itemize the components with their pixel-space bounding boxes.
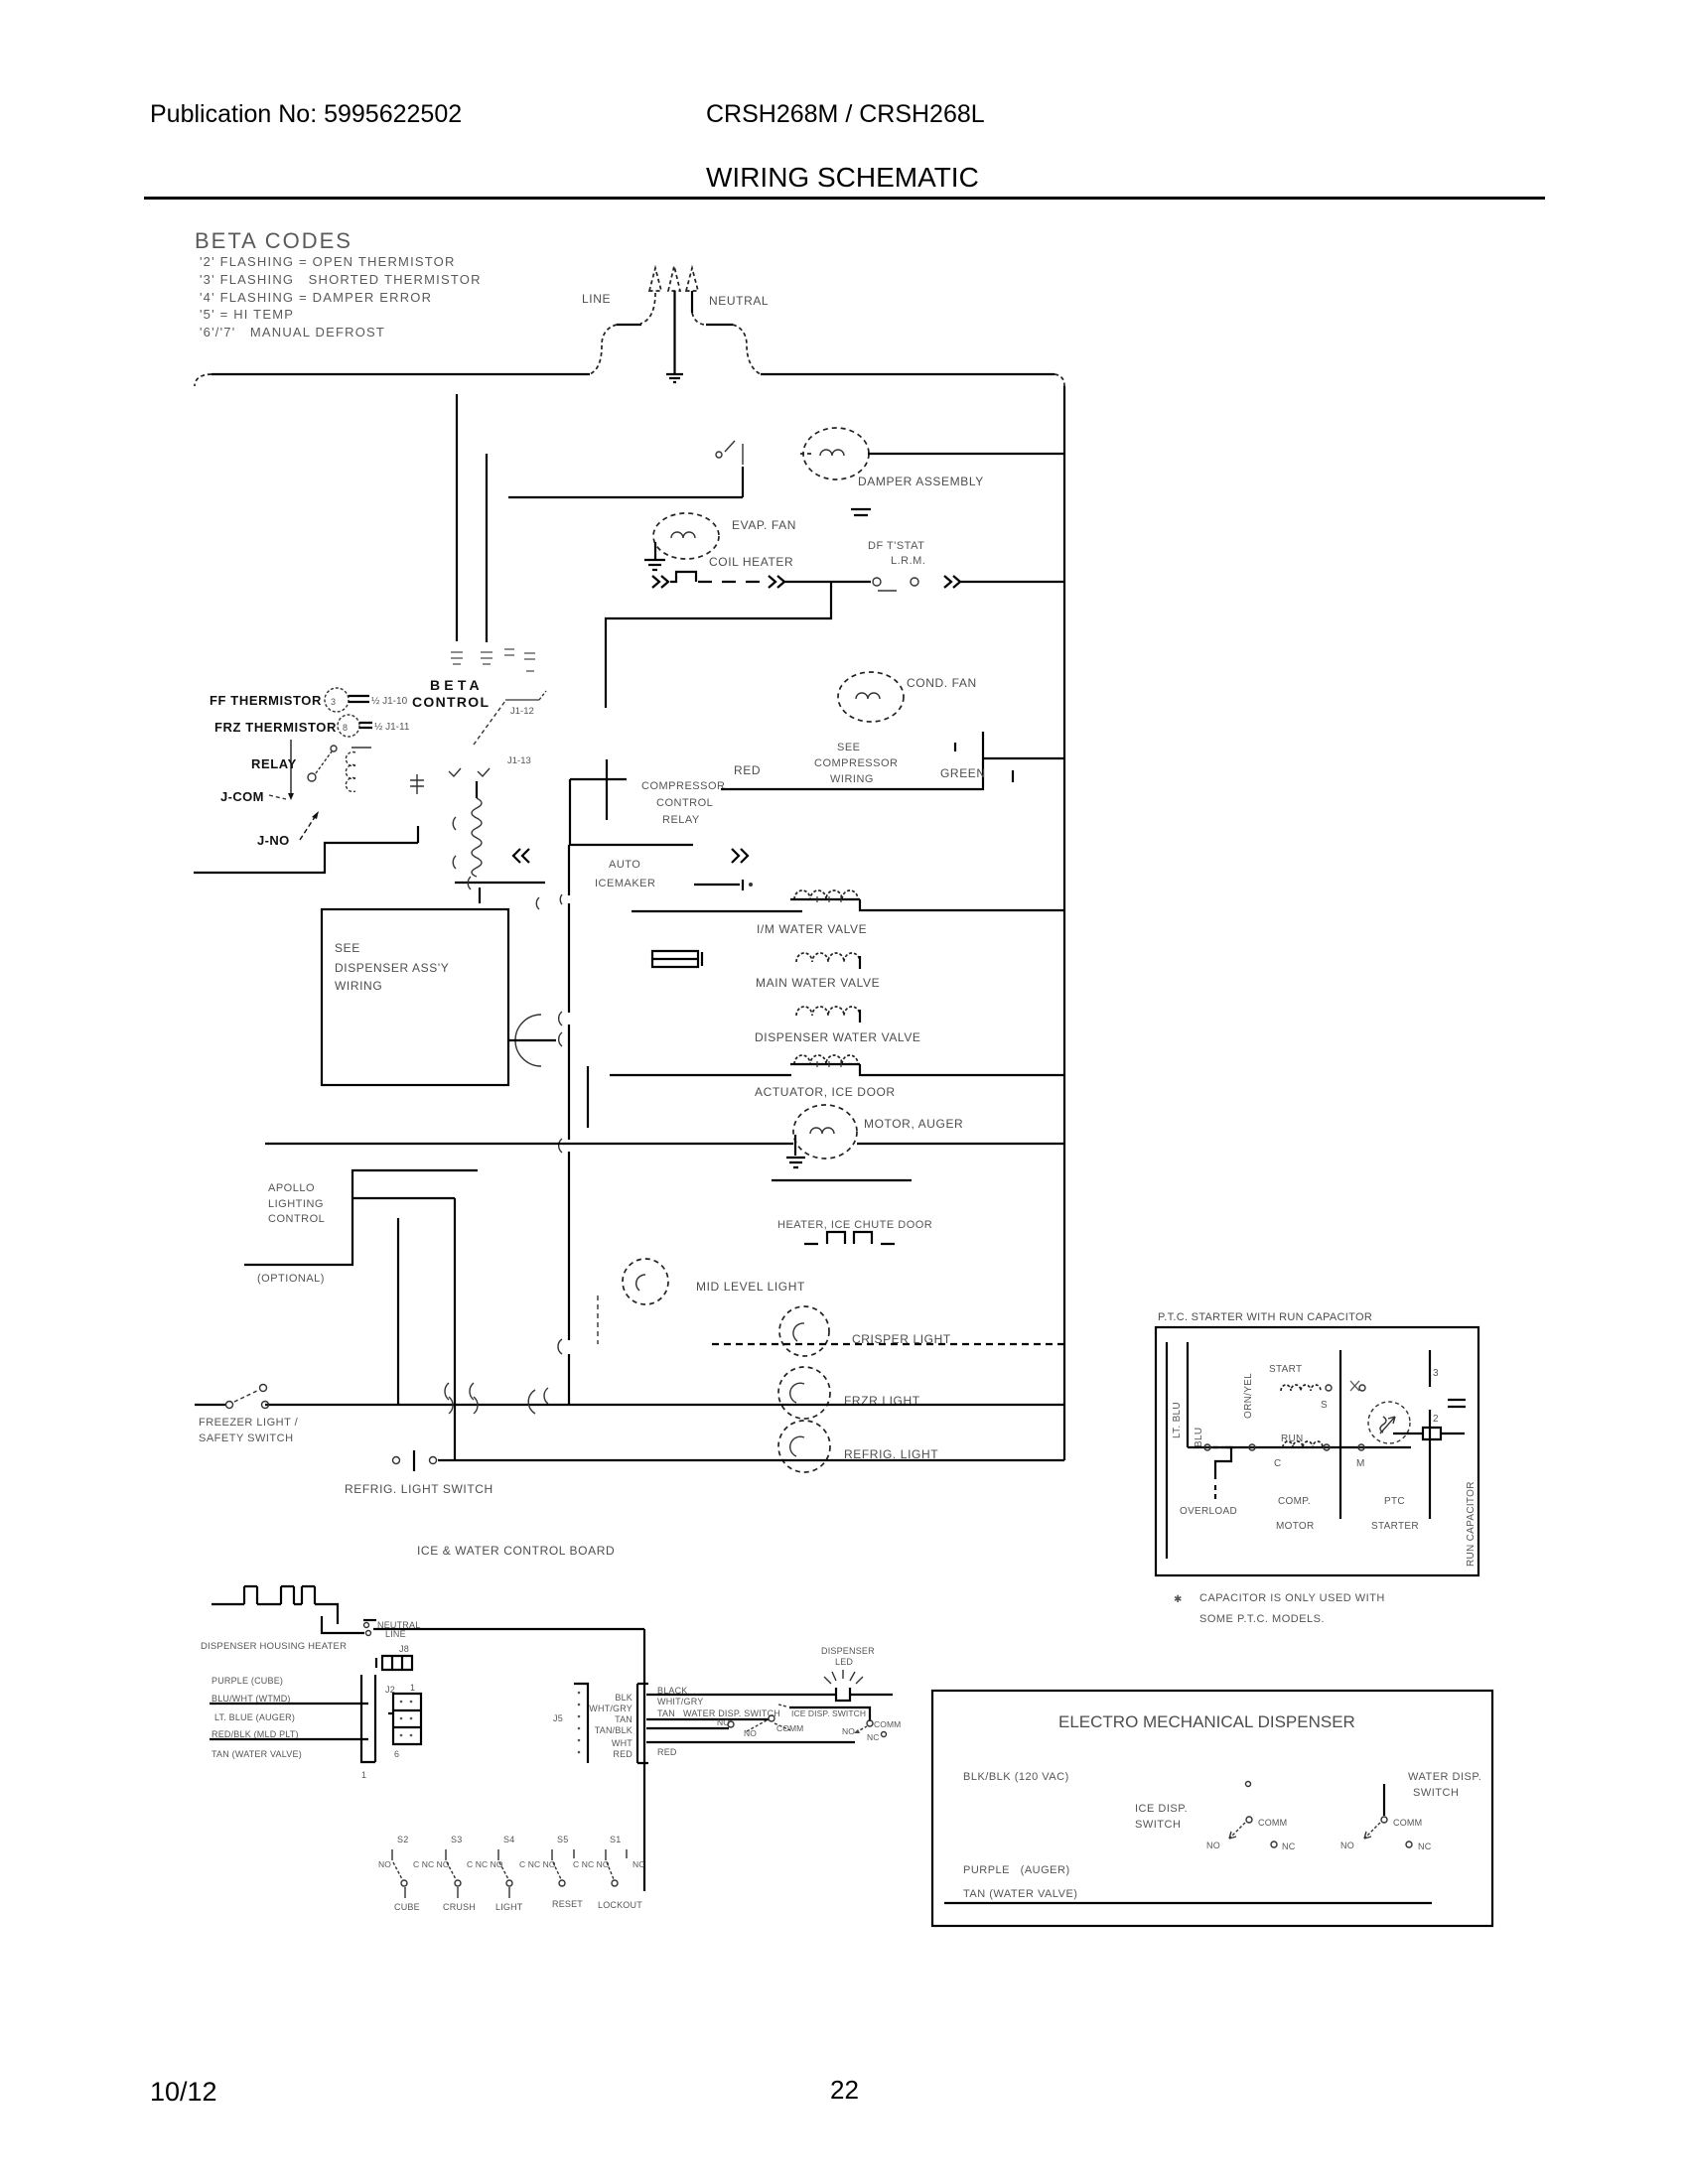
svg-text:NC: NC bbox=[1418, 1842, 1432, 1851]
selector switch S5 bbox=[519, 1835, 574, 1886]
auger wire right bbox=[857, 1143, 1064, 1145]
svg-text:'6'/'7' MANUAL DEFROST: '6'/'7' MANUAL DEFROST bbox=[200, 325, 385, 340]
svg-text:C NC NO: C NC NO bbox=[573, 1859, 610, 1869]
svg-text:J8: J8 bbox=[399, 1644, 409, 1654]
svg-text:RESET: RESET bbox=[552, 1899, 583, 1909]
svg-text:LINE: LINE bbox=[582, 292, 611, 306]
dispenser led bbox=[836, 1688, 850, 1701]
freezer light bbox=[778, 1367, 830, 1419]
step stub vertical bbox=[417, 826, 419, 843]
defrost heater jog bbox=[670, 572, 696, 582]
comb elbow to neutral bbox=[321, 1604, 364, 1633]
ptc circle bbox=[1368, 1402, 1410, 1443]
callout dashed diagonal bbox=[474, 701, 505, 745]
svg-text:DISPENSER: DISPENSER bbox=[821, 1646, 875, 1656]
tan switch terminal bbox=[769, 1715, 774, 1721]
selector switch S2 bbox=[378, 1835, 408, 1898]
run winding coil bbox=[1283, 1441, 1323, 1447]
cond fan curls bbox=[856, 693, 880, 699]
board right edge bbox=[643, 1629, 645, 1891]
svg-text:WATER DISP.: WATER DISP. bbox=[1408, 1771, 1481, 1783]
crisper light bbox=[779, 1306, 829, 1356]
electro mechanical dispenser box bbox=[932, 1691, 1492, 1926]
selector switch S4 bbox=[467, 1835, 514, 1898]
ptc right vertical bbox=[1429, 1350, 1431, 1519]
icemaker thermostat bbox=[652, 951, 702, 967]
IM water valve wire right bbox=[860, 899, 1064, 910]
svg-text:ORN/YEL: ORN/YEL bbox=[1243, 1373, 1254, 1419]
ground lead from middle prong bbox=[673, 291, 675, 373]
ptc mid vertical bbox=[1339, 1350, 1341, 1519]
power plug prong left bbox=[649, 268, 661, 291]
svg-text:TAN: TAN bbox=[615, 1714, 633, 1724]
emd switch1 pivot bbox=[1246, 1782, 1251, 1787]
svg-text:STARTER: STARTER bbox=[1371, 1521, 1419, 1532]
svg-text:COIL HEATER: COIL HEATER bbox=[709, 555, 793, 569]
svg-text:ICE DISP. SWITCH: ICE DISP. SWITCH bbox=[791, 1708, 866, 1718]
svg-text:ACTUATOR, ICE DOOR: ACTUATOR, ICE DOOR bbox=[755, 1085, 896, 1099]
svg-text:S: S bbox=[1321, 1400, 1328, 1411]
power plug prong middle bbox=[668, 266, 680, 291]
svg-text:J1-13: J1-13 bbox=[507, 755, 531, 766]
auger motor circle bbox=[793, 1105, 857, 1159]
svg-text:CRUSH: CRUSH bbox=[443, 1902, 476, 1912]
svg-text:ICE & WATER CONTROL BOARD: ICE & WATER CONTROL BOARD bbox=[417, 1544, 615, 1558]
neutral terminal bbox=[364, 1623, 369, 1628]
bus switch arcs bbox=[515, 894, 562, 1404]
svg-text:L.R.M.: L.R.M. bbox=[891, 555, 925, 567]
ff thermistor leads bbox=[349, 696, 369, 702]
svg-text:SWITCH: SWITCH bbox=[1413, 1787, 1459, 1799]
IM water valve coil bbox=[794, 890, 858, 899]
svg-text:SEE: SEE bbox=[335, 941, 360, 955]
J1 connector pin marks row bbox=[451, 649, 535, 671]
svg-text:NC: NC bbox=[1282, 1842, 1296, 1851]
left bus wire bbox=[568, 845, 570, 1405]
svg-text:COMM: COMM bbox=[1258, 1818, 1287, 1828]
J8 connector bbox=[376, 1656, 412, 1670]
svg-text:PURPLE (AUGER): PURPLE (AUGER) bbox=[963, 1864, 1070, 1876]
defrost heater right arrows bbox=[769, 576, 784, 588]
apollo lighting control outline bbox=[244, 1170, 478, 1265]
main water valve coil bbox=[796, 953, 860, 962]
condenser fan motor circle bbox=[838, 672, 904, 722]
actuator vertical stub bbox=[587, 1066, 589, 1128]
defrost t'stat terminal right bbox=[911, 578, 918, 586]
svg-text:'2' FLASHING = OPEN THERMISTOR: '2' FLASHING = OPEN THERMISTOR bbox=[200, 254, 456, 269]
ice chute heater element bbox=[804, 1232, 895, 1244]
j-com dashed pointer bbox=[269, 795, 286, 799]
run line bbox=[1188, 1446, 1411, 1448]
evap fan motor circle bbox=[653, 513, 719, 559]
svg-text:MID LEVEL LIGHT: MID LEVEL LIGHT bbox=[696, 1280, 805, 1294]
freezer light wire bbox=[195, 1404, 1064, 1406]
svg-text:2: 2 bbox=[1433, 1414, 1439, 1425]
auger motor wire left bbox=[265, 1143, 793, 1145]
crisper dashed wire bbox=[712, 1343, 1064, 1345]
line cord left lead bbox=[640, 293, 655, 324]
svg-text:6: 6 bbox=[394, 1749, 399, 1759]
svg-text:OVERLOAD: OVERLOAD bbox=[1180, 1506, 1237, 1517]
svg-text:BLU: BLU bbox=[1194, 1428, 1204, 1447]
svg-text:PURPLE (CUBE): PURPLE (CUBE) bbox=[211, 1676, 283, 1686]
defrost t'stat terminal left bbox=[873, 578, 897, 591]
svg-text:C: C bbox=[1274, 1458, 1282, 1469]
start winding coil bbox=[1281, 1385, 1321, 1391]
wire damper to right bus bbox=[868, 453, 1064, 455]
power plug prong right bbox=[686, 268, 698, 291]
svg-text:LIGHTING: LIGHTING bbox=[268, 1198, 324, 1210]
svg-text:NC: NC bbox=[633, 1859, 644, 1869]
svg-text:APOLLO: APOLLO bbox=[268, 1182, 315, 1194]
auto icemaker wire bbox=[569, 844, 693, 846]
refrigerator light wire bbox=[438, 1459, 1064, 1461]
IM water valve wire left bbox=[632, 910, 802, 912]
J2 pin dots bbox=[400, 1701, 413, 1737]
svg-text:COND. FAN: COND. FAN bbox=[907, 676, 977, 690]
svg-text:'3' FLASHING SHORTED THERMIS: '3' FLASHING SHORTED THERMISTOR bbox=[200, 272, 482, 287]
svg-text:SOME P.T.C. MODELS.: SOME P.T.C. MODELS. bbox=[1199, 1613, 1325, 1625]
svg-text:WIRING SCHEMATIC: WIRING SCHEMATIC bbox=[706, 162, 979, 193]
outline top wire right segment bbox=[761, 373, 1055, 375]
wire t'stat to right bus bbox=[960, 581, 1064, 583]
svg-text:M: M bbox=[1356, 1458, 1365, 1469]
svg-text:PTC: PTC bbox=[1384, 1496, 1405, 1507]
svg-text:CONTROL: CONTROL bbox=[268, 1213, 325, 1225]
svg-text:J5: J5 bbox=[553, 1713, 563, 1723]
ff thermistor symbol bbox=[325, 688, 349, 712]
svg-text:DF T'STAT: DF T'STAT bbox=[868, 540, 924, 552]
title rule bbox=[144, 197, 1545, 200]
svg-text:½ J1-10: ½ J1-10 bbox=[371, 696, 408, 707]
svg-text:22: 22 bbox=[830, 2075, 859, 2105]
svg-text:S5: S5 bbox=[557, 1835, 568, 1844]
svg-text:SEE: SEE bbox=[837, 742, 861, 753]
svg-text:COMPRESSOR: COMPRESSOR bbox=[814, 757, 898, 769]
svg-text:BLU/WHT (WTMD): BLU/WHT (WTMD) bbox=[211, 1694, 291, 1704]
J2 bracket bbox=[361, 1675, 375, 1762]
svg-text:RUN CAPACITOR: RUN CAPACITOR bbox=[1466, 1481, 1477, 1567]
damper ground bars bbox=[851, 509, 871, 515]
icemaker arrows bbox=[732, 849, 748, 863]
actuator wire right bbox=[860, 1064, 1064, 1075]
tan underline bbox=[944, 1902, 1432, 1904]
svg-text:CRSH268M / CRSH268L: CRSH268M / CRSH268L bbox=[706, 100, 985, 128]
svg-text:TAN (WATER VALVE): TAN (WATER VALVE) bbox=[211, 1749, 302, 1759]
svg-text:C NC NO: C NC NO bbox=[467, 1859, 503, 1869]
svg-text:WHT/GRY: WHT/GRY bbox=[589, 1704, 633, 1713]
ice chute heater bar bbox=[772, 1179, 912, 1181]
compressor relay contact bbox=[606, 759, 608, 820]
selector switch S1 bbox=[573, 1835, 644, 1886]
wire to green bbox=[983, 757, 1064, 759]
svg-text:S4: S4 bbox=[503, 1835, 514, 1844]
svg-text:LIGHT: LIGHT bbox=[495, 1902, 523, 1912]
svg-text:LT. BLU: LT. BLU bbox=[1172, 1402, 1183, 1438]
relay contact symbol bbox=[308, 746, 337, 781]
relay pointer line bbox=[290, 740, 292, 796]
ground symbol bbox=[666, 374, 683, 382]
svg-text:COMM: COMM bbox=[776, 1723, 803, 1733]
ice door switch box bbox=[789, 1707, 870, 1721]
start contact bbox=[1350, 1381, 1359, 1391]
relay coil bbox=[346, 748, 371, 792]
ice door comm bbox=[867, 1720, 873, 1726]
svg-text:WHIT/GRY: WHIT/GRY bbox=[657, 1697, 703, 1706]
svg-text:3: 3 bbox=[331, 697, 336, 707]
svg-text:S1: S1 bbox=[610, 1835, 621, 1844]
neutral tick bbox=[363, 1619, 376, 1621]
svg-text:I/M WATER VALVE: I/M WATER VALVE bbox=[757, 922, 867, 936]
damper door switch bbox=[716, 441, 743, 465]
svg-text:Publication No: 5995622502: Publication No: 5995622502 bbox=[150, 100, 462, 128]
svg-text:C NC NO: C NC NO bbox=[519, 1859, 556, 1869]
svg-text:BETA: BETA bbox=[430, 677, 484, 693]
svg-text:LED: LED bbox=[835, 1657, 853, 1667]
svg-text:'4' FLASHING = DAMPER ERROR: '4' FLASHING = DAMPER ERROR bbox=[200, 290, 432, 305]
svg-text:CRISPER LIGHT: CRISPER LIGHT bbox=[852, 1332, 951, 1346]
see dispenser assy wiring box bbox=[322, 909, 508, 1085]
svg-text:CUBE: CUBE bbox=[394, 1902, 420, 1912]
mid level light bbox=[623, 1259, 668, 1304]
svg-text:DISPENSER ASS'Y: DISPENSER ASS'Y bbox=[335, 961, 449, 975]
svg-text:MAIN WATER VALVE: MAIN WATER VALVE bbox=[756, 976, 880, 990]
svg-text:NO: NO bbox=[842, 1726, 855, 1736]
wire J1 pin4 vertical bbox=[486, 454, 488, 642]
comm dashes bbox=[774, 1723, 790, 1730]
apollo drop wires bbox=[398, 1198, 455, 1461]
svg-text:✱: ✱ bbox=[1174, 1594, 1183, 1605]
evap fan ground symbol bbox=[644, 560, 665, 570]
J5 bracket bbox=[574, 1684, 588, 1763]
start terminal bbox=[1326, 1385, 1332, 1391]
svg-text:GREEN: GREEN bbox=[940, 766, 986, 780]
line terminal bbox=[366, 1631, 371, 1636]
svg-text:DAMPER ASSEMBLY: DAMPER ASSEMBLY bbox=[858, 475, 984, 488]
actuator coil bbox=[794, 1055, 858, 1064]
svg-text:½ J1-11: ½ J1-11 bbox=[374, 722, 410, 733]
svg-text:P.T.C. STARTER WITH RUN CAPACI: P.T.C. STARTER WITH RUN CAPACITOR bbox=[1158, 1311, 1372, 1323]
defrost heater wire left arrows bbox=[652, 576, 668, 588]
emd switch1 bbox=[1206, 1817, 1296, 1851]
svg-text:S3: S3 bbox=[451, 1835, 462, 1844]
small arc below check bbox=[453, 817, 456, 830]
svg-text:1: 1 bbox=[410, 1683, 415, 1693]
svg-text:'5' = HI TEMP: '5' = HI TEMP bbox=[200, 307, 294, 322]
svg-text:NO: NO bbox=[1206, 1841, 1220, 1850]
run capacitor plates bbox=[1448, 1400, 1466, 1407]
svg-text:FRZ THERMISTOR: FRZ THERMISTOR bbox=[214, 720, 337, 735]
svg-text:(OPTIONAL): (OPTIONAL) bbox=[257, 1273, 325, 1285]
svg-text:C NC NO: C NC NO bbox=[413, 1859, 450, 1869]
frz thermistor symbol bbox=[338, 715, 359, 737]
svg-text:WIRING: WIRING bbox=[335, 979, 382, 993]
dispenser water valve coil bbox=[796, 1007, 860, 1016]
wire to damper switch bbox=[508, 467, 743, 497]
svg-text:1: 1 bbox=[361, 1770, 366, 1780]
svg-text:AUTO: AUTO bbox=[609, 859, 640, 871]
emd switch2 lead bbox=[1383, 1784, 1385, 1816]
svg-text:START: START bbox=[1269, 1364, 1302, 1375]
svg-text:EVAP. FAN: EVAP. FAN bbox=[732, 518, 796, 532]
cap connection box bbox=[1393, 1428, 1465, 1439]
damper assembly motor circle bbox=[803, 428, 869, 479]
svg-text:TAN (WATER VALVE): TAN (WATER VALVE) bbox=[963, 1888, 1077, 1900]
neutral wire bbox=[373, 1628, 644, 1630]
evap fan ground lead bbox=[654, 542, 656, 559]
defrost t'stat arrows bbox=[944, 576, 960, 588]
svg-text:LT. BLUE (AUGER): LT. BLUE (AUGER) bbox=[214, 1712, 295, 1722]
evap fan curls bbox=[671, 532, 695, 538]
svg-text:RELAY: RELAY bbox=[251, 756, 297, 771]
svg-text:MOTOR: MOTOR bbox=[1276, 1521, 1315, 1532]
svg-text:LOCKOUT: LOCKOUT bbox=[598, 1900, 642, 1910]
outline top-left corner bbox=[195, 374, 211, 386]
wire heater branch down bbox=[606, 582, 831, 708]
svg-text:10/12: 10/12 bbox=[150, 2077, 217, 2107]
svg-text:ELECTRO MECHANICAL DISPENSER: ELECTRO MECHANICAL DISPENSER bbox=[1058, 1712, 1355, 1731]
svg-text:J1-12: J1-12 bbox=[510, 706, 534, 717]
wire dispenser box to bus bbox=[508, 1039, 556, 1041]
svg-text:WHT: WHT bbox=[612, 1738, 633, 1748]
damper left stub bbox=[800, 453, 814, 455]
damper motor curls bbox=[820, 450, 844, 456]
svg-text:ICE DISP.: ICE DISP. bbox=[1135, 1803, 1188, 1815]
frz thermistor leads bbox=[359, 723, 372, 728]
svg-text:NO: NO bbox=[378, 1859, 391, 1869]
switch arcs on freezer wire bbox=[445, 1383, 535, 1414]
crossing wire below heater bbox=[455, 882, 545, 884]
dashed stub bbox=[597, 1296, 599, 1344]
wht wire bbox=[646, 1741, 855, 1743]
auger ground bbox=[786, 1135, 805, 1167]
svg-text:ICEMAKER: ICEMAKER bbox=[595, 878, 655, 889]
svg-text:BLK/BLK (120 VAC): BLK/BLK (120 VAC) bbox=[963, 1771, 1069, 1783]
wire heater to defrost t'stat bbox=[784, 581, 871, 583]
svg-text:S2: S2 bbox=[397, 1835, 408, 1844]
svg-text:RED: RED bbox=[734, 763, 761, 777]
svg-text:REFRIG. LIGHT SWITCH: REFRIG. LIGHT SWITCH bbox=[345, 1482, 493, 1496]
tan wire bbox=[646, 1718, 769, 1720]
svg-text:8: 8 bbox=[343, 723, 348, 733]
refrig light switch bbox=[393, 1450, 437, 1471]
svg-text:CONTROL: CONTROL bbox=[656, 797, 713, 809]
bottom connector comb bbox=[211, 1603, 321, 1605]
thermal fuse symbol bbox=[410, 774, 424, 794]
svg-text:COMM: COMM bbox=[1393, 1818, 1422, 1828]
svg-text:TAN/BLK: TAN/BLK bbox=[595, 1725, 633, 1735]
svg-text:3: 3 bbox=[1433, 1368, 1439, 1379]
svg-text:LINE: LINE bbox=[385, 1629, 406, 1639]
defrost heater coil zigzag bbox=[472, 798, 482, 877]
freezer safety switch bbox=[226, 1385, 269, 1409]
svg-text:CONTROL: CONTROL bbox=[412, 694, 490, 710]
svg-text:NO: NO bbox=[1340, 1841, 1354, 1850]
j-no arrow bbox=[300, 817, 315, 840]
red/blk wire bbox=[210, 1738, 368, 1740]
svg-text:NO: NO bbox=[744, 1728, 757, 1738]
svg-text:COMM: COMM bbox=[874, 1719, 901, 1729]
selector switch S3 bbox=[413, 1835, 462, 1898]
svg-text:NC: NC bbox=[867, 1732, 879, 1742]
svg-text:WIRING: WIRING bbox=[830, 773, 874, 785]
overload jog bbox=[1213, 1446, 1223, 1448]
svg-text:RELAY: RELAY bbox=[662, 814, 700, 826]
svg-text:J-NO: J-NO bbox=[257, 833, 290, 848]
compressor wire bbox=[721, 732, 983, 789]
blu/wht wire bbox=[210, 1703, 368, 1705]
left outline bottom step bbox=[194, 843, 418, 873]
refrigerator light bbox=[778, 1421, 830, 1472]
svg-text:COMP.: COMP. bbox=[1278, 1496, 1311, 1507]
wire J1 pin2 vertical bbox=[456, 394, 458, 641]
svg-text:BLK: BLK bbox=[615, 1693, 633, 1703]
small check marks bbox=[449, 768, 490, 776]
green tick bbox=[955, 743, 1013, 782]
defrost heater dashed segment bbox=[698, 581, 767, 583]
outline top-right corner bbox=[1055, 374, 1064, 386]
svg-text:SWITCH: SWITCH bbox=[1135, 1819, 1181, 1831]
svg-text:COMPRESSOR: COMPRESSOR bbox=[641, 780, 725, 792]
neutral cord right lead bbox=[691, 291, 693, 313]
svg-text:CAPACITOR IS ONLY USED WITH: CAPACITOR IS ONLY USED WITH bbox=[1199, 1592, 1385, 1604]
svg-text:DISPENSER HOUSING HEATER: DISPENSER HOUSING HEATER bbox=[201, 1641, 347, 1652]
emd switch2 bbox=[1340, 1817, 1432, 1851]
svg-text:BETA CODES: BETA CODES bbox=[195, 228, 352, 253]
double arrow left bbox=[513, 849, 529, 863]
svg-text:SAFETY SWITCH: SAFETY SWITCH bbox=[199, 1433, 294, 1444]
svg-text:FF THERMISTOR: FF THERMISTOR bbox=[210, 693, 322, 708]
actuator wire left bbox=[610, 1074, 791, 1076]
svg-text:NEUTRAL: NEUTRAL bbox=[709, 294, 769, 308]
tan/blk wire bbox=[646, 1727, 729, 1729]
board connector strip bbox=[637, 1684, 648, 1763]
auger curls bbox=[810, 1128, 834, 1134]
svg-text:MOTOR, AUGER: MOTOR, AUGER bbox=[864, 1117, 963, 1131]
right bus wire bbox=[1063, 386, 1065, 1460]
svg-text:RED/BLK (MLD PLT): RED/BLK (MLD PLT) bbox=[211, 1729, 299, 1739]
J2 connector bbox=[388, 1694, 421, 1744]
svg-text:RED: RED bbox=[613, 1749, 633, 1759]
svg-text:J-COM: J-COM bbox=[220, 789, 264, 804]
J1-12 callout bbox=[505, 699, 539, 701]
ptc inner left verticals bbox=[1167, 1342, 1188, 1559]
J5 pin dots bbox=[578, 1692, 581, 1754]
svg-text:FREEZER LIGHT /: FREEZER LIGHT / bbox=[199, 1417, 299, 1429]
svg-text:HEATER, ICE CHUTE DOOR: HEATER, ICE CHUTE DOOR bbox=[777, 1219, 932, 1231]
svg-text:DISPENSER WATER VALVE: DISPENSER WATER VALVE bbox=[755, 1030, 921, 1044]
ptc starter box bbox=[1156, 1327, 1478, 1575]
outline top wire left segment bbox=[211, 373, 590, 375]
icemaker contact bbox=[694, 880, 743, 890]
heater coil top lead bbox=[476, 781, 478, 798]
run terminals bbox=[1204, 1444, 1364, 1450]
svg-text:RED: RED bbox=[657, 1747, 677, 1757]
